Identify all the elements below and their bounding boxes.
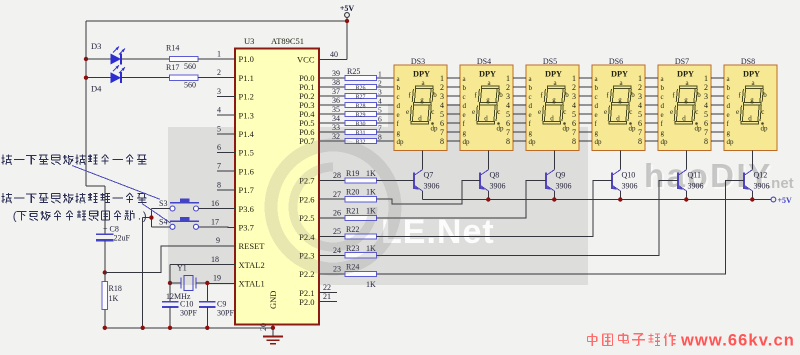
capacitor C9 30PF [199, 283, 234, 328]
svg-text:g: g [397, 129, 401, 137]
wire S3/S4 left junction [143, 209, 170, 227]
svg-text:e: e [472, 108, 475, 116]
svg-text:6: 6 [217, 143, 221, 152]
svg-text:Q7: Q7 [424, 171, 434, 180]
svg-text:35: 35 [332, 105, 340, 114]
svg-text:e: e [727, 111, 730, 119]
display DS4 [447, 57, 513, 151]
wire +5V to VCC and top rail [86, 17, 349, 59]
svg-text:8: 8 [572, 137, 576, 146]
resistor R31 [319, 123, 394, 137]
capacitor C10 30PF [162, 283, 197, 328]
svg-text:4: 4 [440, 101, 444, 110]
ground rail bottom [103, 326, 275, 330]
display DS8 [711, 57, 777, 151]
resistor R19 1K [319, 169, 377, 183]
svg-text:P1.7: P1.7 [239, 185, 254, 195]
svg-text:+ C8: + C8 [103, 225, 119, 234]
svg-text:c: c [695, 108, 698, 116]
svg-text:Y1: Y1 [177, 264, 187, 273]
svg-text:6: 6 [704, 119, 708, 128]
wire XTAL1 [207, 274, 235, 284]
svg-text:36: 36 [332, 96, 340, 105]
svg-text:www.66kv.cn: www.66kv.cn [680, 332, 795, 350]
svg-text:7: 7 [704, 128, 708, 137]
svg-text:P2.5: P2.5 [299, 213, 314, 223]
svg-text:34: 34 [332, 114, 340, 123]
svg-text:3906: 3906 [424, 182, 440, 191]
svg-text:2: 2 [704, 83, 708, 92]
transistor Q10 3906 [612, 170, 638, 200]
svg-text:Q8: Q8 [490, 171, 500, 180]
+5V rail (emitters) [422, 196, 792, 205]
svg-text:4: 4 [217, 106, 221, 115]
wire D4 to R17 [121, 77, 170, 79]
svg-text:1: 1 [704, 74, 708, 83]
svg-text:R28: R28 [355, 103, 365, 109]
svg-text:19: 19 [213, 274, 221, 283]
svg-text:20: 20 [259, 323, 268, 331]
U3 GND pin 20 [259, 291, 278, 337]
svg-text:8: 8 [704, 137, 708, 146]
svg-text:7: 7 [217, 162, 221, 171]
site credit text [588, 332, 795, 350]
svg-text:40: 40 [330, 50, 338, 59]
svg-text:e: e [397, 111, 400, 119]
svg-text:30PF: 30PF [180, 309, 197, 318]
svg-text:3906: 3906 [688, 182, 704, 191]
svg-text:5: 5 [638, 110, 642, 119]
svg-text:2: 2 [217, 68, 221, 77]
svg-text:7: 7 [378, 124, 382, 133]
svg-text:e: e [670, 108, 673, 116]
svg-text:e: e [595, 111, 598, 119]
svg-text:d: d [529, 102, 533, 110]
svg-text:b: b [631, 91, 635, 99]
svg-text:560: 560 [184, 81, 196, 90]
svg-text:3906: 3906 [754, 182, 770, 191]
svg-text:GND: GND [268, 291, 278, 309]
wire RESET [105, 236, 235, 273]
svg-text:30PF: 30PF [217, 309, 234, 318]
svg-text:1: 1 [440, 74, 444, 83]
svg-text:P1.4: P1.4 [239, 129, 255, 139]
svg-text:g: g [727, 129, 731, 137]
svg-text:c: c [563, 108, 566, 116]
svg-text:e: e [463, 111, 466, 119]
svg-text:4: 4 [638, 101, 642, 110]
svg-text:P1.0: P1.0 [239, 54, 254, 64]
U3 left pin names and stub pins [217, 50, 265, 289]
svg-text:e: e [529, 111, 532, 119]
resistor R23 1K [319, 244, 377, 258]
svg-text:d: d [484, 114, 488, 122]
svg-text:7: 7 [572, 128, 576, 137]
svg-text:3: 3 [440, 92, 444, 101]
svg-text:R25: R25 [347, 67, 360, 76]
svg-text:560: 560 [184, 62, 196, 71]
svg-text:e: e [406, 108, 409, 116]
svg-text:5: 5 [506, 110, 510, 119]
svg-text:2: 2 [506, 83, 510, 92]
svg-text:d: d [397, 102, 401, 110]
svg-text:VCC: VCC [297, 55, 315, 65]
svg-text:7: 7 [638, 128, 642, 137]
transistor Q12 3906 [744, 170, 770, 200]
wire R14 to U3 pin1 [198, 58, 235, 60]
svg-text:d: d [682, 114, 686, 122]
svg-text:Q12: Q12 [754, 171, 768, 180]
capacitor C8 22uF [96, 225, 131, 243]
svg-text:XTAL1: XTAL1 [239, 279, 265, 289]
wire DS5 common pin down [553, 151, 555, 170]
svg-text:b: b [397, 84, 401, 92]
svg-text:P1.5: P1.5 [239, 148, 254, 158]
svg-text:8: 8 [378, 133, 382, 142]
svg-text:e: e [604, 108, 607, 116]
svg-text:R26: R26 [355, 85, 365, 91]
svg-text:dp: dp [397, 138, 405, 146]
svg-text:4: 4 [704, 101, 708, 110]
svg-text:22: 22 [323, 283, 331, 292]
svg-text:g: g [618, 96, 622, 104]
svg-text:e: e [736, 108, 739, 116]
svg-text:g: g [463, 129, 467, 137]
display DS5 [513, 57, 579, 151]
svg-text:dp: dp [529, 138, 537, 146]
svg-text:dp: dp [497, 125, 505, 133]
svg-text:3: 3 [638, 92, 642, 101]
svg-text:R30: R30 [355, 121, 365, 127]
svg-text:Q9: Q9 [556, 171, 566, 180]
svg-text:22uF: 22uF [114, 234, 131, 243]
svg-text:.: . [138, 210, 141, 222]
svg-text:6: 6 [378, 115, 382, 124]
resistor R26 [319, 78, 394, 92]
watermark haoDIY.net [644, 157, 794, 196]
pushbutton S4 [159, 217, 199, 230]
svg-text:DPY: DPY [611, 70, 628, 79]
resistor R28 [319, 96, 394, 110]
svg-text:R21: R21 [346, 206, 359, 215]
svg-text:b: b [565, 91, 569, 99]
wire XTAL2 [170, 255, 235, 283]
svg-text:d: d [550, 114, 554, 122]
wire D3 to R14 [121, 58, 170, 60]
svg-text:1: 1 [378, 70, 382, 79]
resistor R32 [319, 132, 394, 146]
wire R19 to Q7 base [377, 180, 415, 182]
svg-text:d: d [418, 114, 422, 122]
svg-text:1K: 1K [366, 169, 376, 178]
svg-text:4: 4 [506, 101, 510, 110]
svg-text:R27: R27 [355, 94, 365, 100]
svg-text:S3: S3 [159, 199, 167, 208]
wire DS3 common pin down [421, 151, 423, 170]
wire R17 to U3 pin2 [198, 77, 235, 79]
svg-text:g: g [420, 96, 424, 104]
svg-text:2: 2 [378, 79, 382, 88]
resistor R14 560 [166, 44, 198, 72]
svg-text:17: 17 [211, 217, 219, 226]
svg-text:R31: R31 [355, 130, 365, 136]
svg-text:3: 3 [506, 92, 510, 101]
svg-text:C10: C10 [180, 300, 193, 309]
svg-text:c: c [727, 93, 730, 101]
svg-text:DPY: DPY [677, 70, 694, 79]
wire R23 to Q11 base [377, 180, 679, 255]
ground symbol [263, 337, 283, 344]
svg-text:DPY: DPY [413, 70, 430, 79]
resistor R25 [319, 67, 394, 81]
svg-text:dp: dp [463, 138, 471, 146]
svg-text:dp: dp [761, 125, 769, 133]
svg-text:g: g [661, 129, 665, 137]
svg-text:c: c [629, 108, 632, 116]
wire R24 to Q12 base [377, 180, 745, 274]
transistor Q11 3906 [678, 170, 704, 200]
svg-text:S4: S4 [159, 217, 167, 226]
display DS3 [394, 57, 447, 151]
svg-text:33: 33 [332, 123, 340, 132]
svg-text:c: c [529, 93, 532, 101]
svg-text:P2.6: P2.6 [299, 194, 314, 204]
resistor R21 1K [319, 206, 377, 220]
svg-text:1: 1 [506, 74, 510, 83]
svg-text:d: d [661, 102, 665, 110]
svg-text:P3.7: P3.7 [239, 223, 254, 233]
svg-text:c: c [661, 93, 664, 101]
wire DS6 common pin down [619, 151, 621, 170]
svg-text:25: 25 [333, 227, 341, 236]
svg-text:b: b [697, 91, 701, 99]
svg-text:5: 5 [704, 110, 708, 119]
svg-text:d: d [616, 114, 620, 122]
svg-text:1K: 1K [366, 280, 376, 289]
U3 right pin names [297, 55, 315, 307]
svg-text:c: c [497, 108, 500, 116]
svg-text:5: 5 [440, 110, 444, 119]
svg-text:C9: C9 [217, 300, 226, 309]
svg-text:3: 3 [217, 87, 221, 96]
svg-text:DPY: DPY [479, 70, 496, 79]
resistor R17 560 [166, 63, 198, 90]
svg-text:R20: R20 [346, 188, 359, 197]
leader line to S4 [142, 204, 171, 224]
svg-text:RESET: RESET [239, 241, 266, 251]
wire R20 to Q8 base [377, 180, 481, 204]
svg-text:3: 3 [378, 88, 382, 97]
svg-text:d: d [748, 114, 752, 122]
svg-text:1: 1 [638, 74, 642, 83]
svg-text:R29: R29 [355, 112, 365, 118]
wire S4 right to pin17 [199, 226, 235, 229]
svg-text:5: 5 [572, 110, 576, 119]
svg-text:b: b [763, 91, 767, 99]
wire R21 to Q9 base [377, 180, 547, 218]
svg-text:c: c [397, 93, 400, 101]
svg-text:AT89C51: AT89C51 [271, 36, 304, 46]
svg-text:g: g [486, 96, 490, 104]
svg-text:6: 6 [638, 119, 642, 128]
transistor Q9 3906 [546, 170, 572, 200]
svg-text:b: b [433, 91, 437, 99]
U3 pins 22 21 stubs [319, 283, 337, 302]
wire buttons to ground rail [142, 218, 144, 328]
svg-text:2: 2 [638, 83, 642, 92]
svg-text:P1.2: P1.2 [239, 92, 254, 102]
svg-text:7: 7 [440, 128, 444, 137]
svg-text:26: 26 [333, 209, 341, 218]
svg-text:18: 18 [211, 255, 219, 264]
svg-text:1: 1 [572, 74, 576, 83]
svg-text:dp: dp [629, 125, 637, 133]
svg-text:c: c [463, 93, 466, 101]
svg-text:DPY: DPY [545, 70, 562, 79]
svg-text:+5V: +5V [778, 196, 793, 205]
svg-text:39: 39 [332, 69, 340, 78]
svg-text:P1.3: P1.3 [239, 110, 254, 120]
svg-text:3: 3 [704, 92, 708, 101]
svg-text:b: b [499, 91, 503, 99]
svg-text:8: 8 [638, 137, 642, 146]
svg-text:dp: dp [431, 125, 439, 133]
svg-text:D4: D4 [91, 84, 102, 94]
svg-text:3906: 3906 [622, 182, 638, 191]
resistor R30 [319, 114, 394, 128]
svg-text:D3: D3 [91, 41, 101, 51]
svg-text:3906: 3906 [490, 182, 506, 191]
wire left +5V rail [86, 21, 105, 234]
svg-text:R14: R14 [166, 44, 179, 53]
svg-text:b: b [661, 84, 665, 92]
svg-text:9: 9 [216, 236, 220, 245]
svg-text:dp: dp [595, 138, 603, 146]
svg-text:1: 1 [217, 50, 221, 59]
leader line to S3 [72, 166, 160, 200]
wire S3 right to pin16 [199, 208, 235, 210]
display DS6 [579, 57, 645, 151]
pushbutton S3 [159, 199, 199, 212]
svg-text:d: d [463, 102, 467, 110]
svg-text:2: 2 [572, 83, 576, 92]
transistor Q7 3906 [414, 170, 440, 200]
svg-text:b: b [529, 84, 533, 92]
svg-text:U3: U3 [244, 36, 254, 46]
svg-text:P3.6: P3.6 [239, 204, 254, 214]
svg-text:4: 4 [378, 97, 382, 106]
svg-text:P2.0: P2.0 [299, 297, 314, 307]
resistor R20 1K [319, 188, 377, 202]
svg-text:21: 21 [323, 292, 331, 301]
svg-text:b: b [463, 84, 467, 92]
+5V power symbol top [340, 4, 355, 17]
resistor R29 [319, 105, 394, 119]
svg-text:d: d [727, 102, 731, 110]
svg-text:e: e [661, 111, 664, 119]
svg-text:1K: 1K [366, 188, 376, 197]
svg-text:4: 4 [572, 101, 576, 110]
svg-text:g: g [750, 96, 754, 104]
svg-text:R17: R17 [166, 63, 179, 72]
svg-text:8: 8 [440, 137, 444, 146]
svg-text:R19: R19 [346, 169, 359, 178]
svg-text:XTAL2: XTAL2 [239, 260, 265, 270]
svg-text:27: 27 [333, 190, 341, 199]
svg-text:.net: .net [767, 175, 794, 192]
svg-text:c: c [431, 108, 434, 116]
watermark gray panel [168, 127, 588, 285]
svg-text:3: 3 [572, 92, 576, 101]
transistor Q8 3906 [480, 170, 506, 200]
svg-text:d: d [595, 102, 599, 110]
svg-text:g: g [595, 129, 599, 137]
svg-text:(: ( [13, 210, 17, 222]
wire DS7 common pin down [685, 151, 687, 170]
svg-text:6: 6 [572, 119, 576, 128]
svg-text:c: c [761, 108, 764, 116]
svg-text:dp: dp [563, 125, 571, 133]
svg-text:16: 16 [211, 199, 219, 208]
svg-text:Q11: Q11 [688, 171, 701, 180]
svg-text:): ) [143, 210, 147, 222]
microcontroller U3 AT89C51 [235, 36, 319, 325]
svg-text:P1.6: P1.6 [239, 166, 254, 176]
LED D3 [84, 47, 125, 65]
svg-text:g: g [552, 96, 556, 104]
note text 1 [2, 157, 5, 159]
resistor R24 1K [319, 263, 377, 290]
svg-text:R18: R18 [109, 284, 122, 293]
svg-text:g: g [529, 129, 533, 137]
LED D4 [84, 65, 125, 83]
svg-text:6: 6 [440, 119, 444, 128]
svg-text:8: 8 [217, 180, 221, 189]
svg-text:g: g [684, 96, 688, 104]
svg-text:6: 6 [506, 119, 510, 128]
wire R22 to Q10 base [377, 180, 613, 236]
svg-text:37: 37 [332, 87, 340, 96]
wire C8 to reset node [104, 240, 106, 272]
resistor R27 [319, 87, 394, 101]
svg-text:dp: dp [661, 138, 669, 146]
svg-text:e: e [538, 108, 541, 116]
svg-text:38: 38 [332, 78, 340, 87]
svg-text:b: b [727, 84, 731, 92]
svg-text:+5V: +5V [340, 4, 355, 13]
wire DS4 common pin down [487, 151, 489, 170]
watermark circle logo [271, 145, 395, 269]
svg-text:Q10: Q10 [622, 171, 636, 180]
svg-text:1K: 1K [109, 294, 119, 303]
svg-text:dp: dp [727, 138, 735, 146]
svg-text:dp: dp [695, 125, 703, 133]
svg-text:DPY: DPY [743, 70, 760, 79]
svg-text:3906: 3906 [556, 182, 572, 191]
svg-text:P1.1: P1.1 [239, 73, 254, 83]
svg-text:b: b [595, 84, 599, 92]
svg-text:8: 8 [506, 137, 510, 146]
svg-text:c: c [595, 93, 598, 101]
svg-text:R22: R22 [346, 225, 359, 234]
svg-text:7: 7 [506, 128, 510, 137]
svg-text:2: 2 [440, 83, 444, 92]
svg-text:5: 5 [217, 124, 221, 133]
crystal Y1 12MHz [166, 264, 210, 302]
resistor R18 1K [102, 273, 122, 328]
wire DS8 common pin down [751, 151, 753, 170]
svg-text:28: 28 [333, 171, 341, 180]
